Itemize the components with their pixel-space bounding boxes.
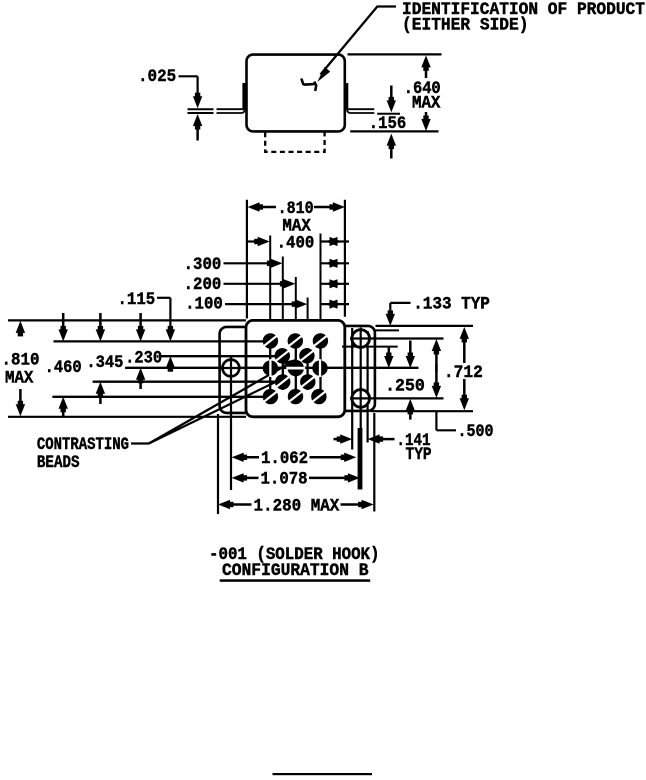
- svg-text:.133 TYP: .133 TYP: [413, 296, 490, 315]
- svg-text:1.062: 1.062: [261, 450, 308, 469]
- svg-text:.025: .025: [138, 68, 176, 87]
- svg-text:CONTRASTING: CONTRASTING: [37, 436, 129, 455]
- svg-text:.230: .230: [125, 349, 162, 368]
- svg-text:1.280 MAX: 1.280 MAX: [254, 497, 340, 516]
- svg-text:(EITHER SIDE): (EITHER SIDE): [402, 17, 529, 36]
- svg-text:.810: .810: [2, 352, 40, 371]
- svg-text:.400: .400: [277, 235, 315, 254]
- svg-text:TYP: TYP: [406, 446, 432, 465]
- svg-text:1.078: 1.078: [261, 471, 308, 490]
- svg-text:.200: .200: [184, 276, 222, 295]
- svg-text:.300: .300: [184, 256, 222, 275]
- svg-text:.810: .810: [278, 200, 314, 219]
- svg-text:.100: .100: [185, 295, 223, 314]
- svg-text:.115: .115: [118, 291, 156, 310]
- svg-text:.500: .500: [458, 423, 494, 442]
- svg-text:.345: .345: [86, 354, 123, 373]
- svg-text:MAX: MAX: [412, 95, 441, 114]
- svg-text:BEADS: BEADS: [37, 454, 80, 473]
- svg-text:CONFIGURATION B: CONFIGURATION B: [222, 562, 369, 581]
- svg-text:MAX: MAX: [5, 369, 34, 388]
- svg-text:.250: .250: [385, 378, 425, 397]
- svg-text:.460: .460: [45, 359, 82, 378]
